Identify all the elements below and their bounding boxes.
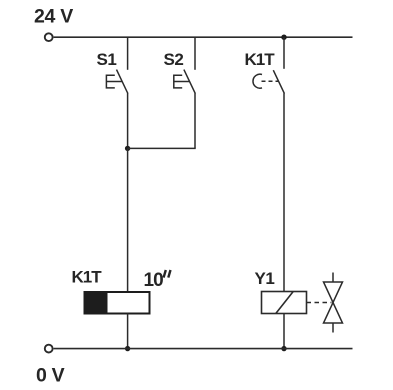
24 V terminal [45, 33, 53, 41]
timer coil K1T (on-delay relay coil) [85, 292, 150, 314]
mechanical link: Y1 coil to valve (dashed) [307, 302, 332, 304]
node: 24V rail / K1T contact branch junction [281, 35, 286, 40]
svg-text:K1T: K1T [245, 50, 276, 69]
node A: junction S1 / S2 / K1T coil [125, 146, 130, 151]
wire: 24V rail to K1T contact [283, 37, 285, 69]
node: Y1 coil / 0V rail junction [281, 346, 286, 351]
svg-text:K1T: K1T [72, 268, 103, 287]
svg-text:10: 10 [144, 270, 164, 291]
svg-text:24 V: 24 V [34, 6, 73, 28]
wire: 24V rail to S1 [127, 37, 129, 70]
wire: K1T coil to 0V rail [127, 314, 129, 349]
wire: S2 down to horizontal link [194, 93, 196, 148]
push button S1 (NO contact with actuator) [106, 70, 128, 94]
0 V terminal [45, 345, 53, 353]
svg-text:Y1: Y1 [255, 269, 275, 288]
svg-text:S1: S1 [97, 50, 117, 69]
svg-text:0 V: 0 V [36, 365, 65, 387]
value label 10&quot; (time delay 10 s) [144, 270, 171, 291]
wire: S1 to node A [127, 93, 129, 148]
solenoid coil Y1 [262, 292, 307, 314]
wire: K1T contact to Y1 coil [283, 93, 285, 291]
wire: 24V rail to S2 [194, 37, 196, 70]
wire: node A to K1T coil [127, 148, 129, 292]
svg-text:S2: S2 [164, 50, 184, 69]
node: K1T coil / 0V rail junction [125, 346, 130, 351]
push button S2 (NO contact with actuator) [174, 70, 196, 94]
valve (pneumatic valve symbol, two triangles) [324, 273, 343, 333]
wire: horizontal link S2 to node A [128, 147, 196, 149]
wire: 24 V top rail [54, 36, 353, 38]
timed contact K1T (NO contact, on-delay actuator) [253, 70, 284, 93]
wire: Y1 coil to 0V rail [283, 314, 285, 349]
wire: 0 V bottom rail [54, 348, 353, 350]
